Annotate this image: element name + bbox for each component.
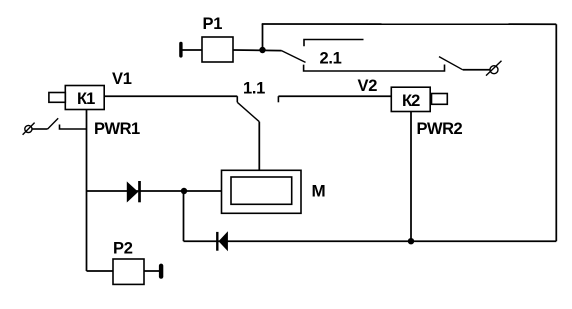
switch 1.1 right contact tick — [277, 96, 279, 102]
relay K1 box — [65, 86, 104, 110]
svg-text:PWR1: PWR1 — [94, 120, 140, 138]
svg-text:1.1: 1.1 — [243, 80, 265, 98]
wire terminal to P1 — [183, 49, 203, 51]
switch 1.1 left contact tick — [236, 96, 238, 102]
wire K2 bottom vertical — [410, 112, 412, 242]
node C junction dot — [181, 188, 187, 194]
terminal bar of P1 — [179, 42, 182, 58]
wire P2 to terminal — [144, 270, 159, 272]
wire V1 (K1 to switch 1.1) — [104, 95, 237, 97]
diode D1 (on motor feed wire) — [127, 181, 140, 203]
switch 1.1 blade — [237, 102, 259, 121]
wire K1 vertical to P2 — [87, 270, 114, 272]
diode D2 (on bottom bus) — [217, 231, 228, 251]
relay K2 tab — [432, 94, 448, 105]
switch 2.1 blade — [282, 51, 306, 63]
wire S2 to terminal circle — [463, 69, 490, 71]
switch PWR1 blade — [48, 118, 59, 129]
motor M outer box — [222, 170, 302, 213]
svg-text:V1: V1 — [112, 70, 132, 88]
svg-text:M: M — [312, 181, 326, 200]
wire terminal to switch PWR1 — [32, 128, 48, 130]
svg-text:P2: P2 — [113, 240, 133, 258]
terminal bar of P2 — [159, 264, 163, 279]
wire motor branch vertical from switch 1.1 — [258, 122, 260, 171]
svg-text:PWR2: PWR2 — [417, 120, 463, 138]
device P2 box — [113, 259, 144, 284]
node B junction dot — [408, 238, 414, 244]
terminal circle with slash (right) — [486, 61, 502, 76]
switch S2 blade (top right) — [439, 57, 463, 70]
wire left feed to motor — [87, 190, 222, 192]
svg-text:2.1: 2.1 — [320, 50, 342, 68]
svg-text:К1: К1 — [77, 90, 95, 108]
svg-text:К2: К2 — [402, 92, 420, 110]
switch PWR1 contact and wire to K1 vertical — [60, 125, 87, 130]
svg-text:V2: V2 — [358, 77, 378, 95]
motor M inner box — [231, 177, 292, 204]
svg-text:P1: P1 — [203, 15, 223, 33]
relay K1 tab — [49, 93, 65, 103]
wire right bus — [555, 24, 557, 241]
wire top bus — [262, 23, 557, 25]
device P1 box — [202, 37, 233, 62]
switch 2.1 lower throw contact and wire — [304, 65, 445, 72]
wire P1 to node A — [233, 49, 282, 52]
terminal circle with slash (left) — [23, 123, 35, 135]
relay K2 box — [391, 87, 430, 111]
node A junction dot — [259, 47, 265, 53]
switch 2.1 upper throw contact — [304, 40, 364, 47]
wire node A up — [262, 24, 264, 50]
wire node C down to bottom bus — [183, 191, 185, 241]
wire bottom bus — [184, 240, 557, 242]
wire K1 bottom vertical — [86, 110, 88, 272]
wire V2 (switch 1.1 to K2) — [278, 95, 391, 97]
